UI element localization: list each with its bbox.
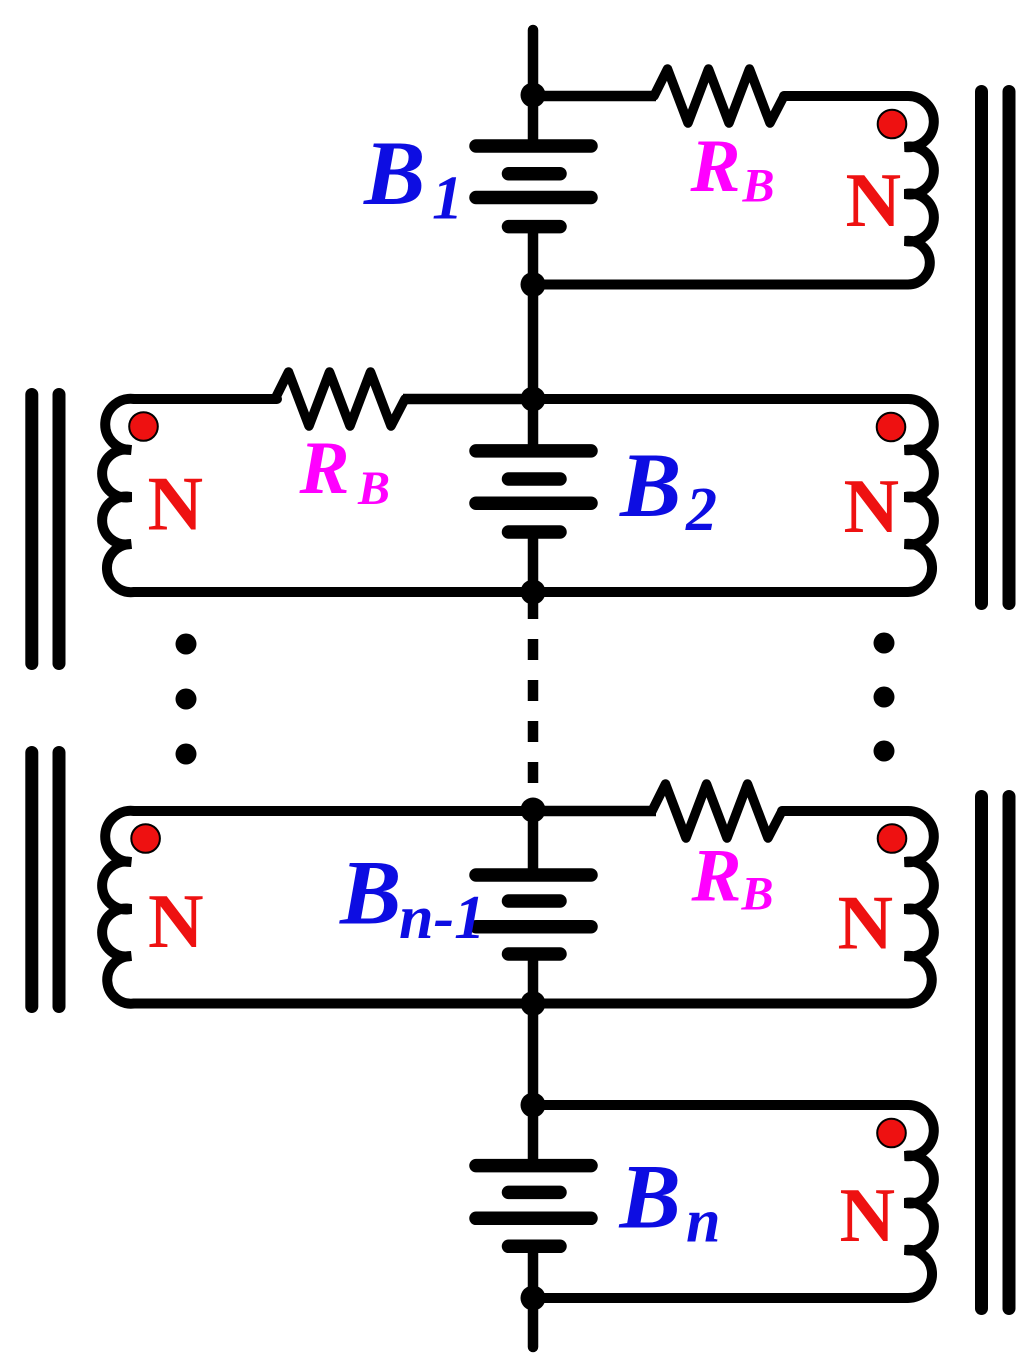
wire node C to resistor (left)	[403, 394, 533, 405]
resistor RB (row2 left)	[275, 372, 405, 426]
wire node B to node C	[528, 285, 539, 400]
battery B2	[476, 451, 591, 532]
core right upper (line 2)	[1003, 92, 1016, 604]
label RB (row1)	[690, 125, 775, 213]
label B1	[363, 122, 463, 233]
wire B2 + to battery	[528, 399, 539, 451]
winding N (row2 left) with wires	[102, 399, 533, 592]
wire node A to resistor	[533, 91, 656, 102]
svg-text:R: R	[690, 125, 741, 208]
node H (Bn -)	[521, 1286, 546, 1311]
wire Bn + to battery	[528, 1105, 539, 1166]
svg-text:N: N	[838, 880, 894, 966]
resistor RB (row3)	[652, 784, 782, 838]
wire top feed	[528, 30, 539, 96]
node D (B2 -)	[521, 580, 546, 605]
polarity dot (row1 right)	[878, 110, 907, 139]
battery B1	[476, 146, 591, 227]
polarity dot (row3 left)	[131, 824, 160, 853]
battery Bn	[476, 1166, 591, 1247]
winding N (row4 right) with wires	[533, 1105, 934, 1298]
core left upper (line 1)	[25, 395, 38, 664]
polarity dot (row4 right)	[877, 1119, 906, 1148]
label B2	[619, 434, 717, 544]
winding N (row3 left) with wires	[102, 811, 533, 1004]
svg-text:N: N	[840, 1172, 896, 1258]
svg-text:B: B	[357, 462, 390, 515]
node B (B1-/B2+)	[521, 272, 546, 297]
wire bottom feed	[528, 1298, 539, 1347]
core left lower (line 2)	[53, 753, 66, 1007]
wire Bn-1 + to battery	[528, 810, 539, 875]
svg-text:B: B	[619, 1146, 681, 1248]
svg-text:R: R	[299, 427, 350, 510]
core right upper (line 1)	[975, 92, 988, 604]
svg-text:N: N	[846, 157, 902, 243]
label Bn	[619, 1146, 721, 1256]
svg-text:1: 1	[432, 165, 463, 233]
node F (Bn-1 -)	[521, 991, 546, 1016]
svg-text:R: R	[691, 835, 742, 918]
winding N (row1 right) with wires	[533, 96, 934, 285]
ellipsis dots left	[176, 634, 197, 765]
svg-text:B: B	[363, 122, 425, 224]
wire node F to node G	[528, 1004, 539, 1106]
wire battery to Bn -	[528, 1246, 539, 1298]
svg-text:B: B	[742, 160, 775, 213]
polarity dot (row3 right)	[878, 824, 907, 853]
core right lower (line 2)	[1003, 797, 1016, 1309]
svg-text:N: N	[844, 463, 900, 549]
svg-text:n-1: n-1	[399, 884, 485, 952]
polarity dot (row2 right)	[877, 413, 906, 442]
svg-text:N: N	[148, 878, 204, 964]
resistor RB (row1)	[654, 69, 784, 123]
battery Bn-1	[476, 875, 591, 954]
core left upper (line 2)	[53, 395, 66, 664]
wire battery to B2 -	[528, 532, 539, 592]
svg-text:2: 2	[685, 476, 717, 544]
wire battery to Bn-1 -	[528, 954, 539, 1004]
node C (B2 +)	[521, 387, 546, 412]
wire battery to B1 -	[528, 227, 539, 285]
svg-text:B: B	[339, 842, 401, 944]
node E (Bn-1 +)	[521, 798, 546, 823]
core left lower (line 1)	[25, 753, 38, 1007]
wire B1 + to battery	[528, 95, 539, 146]
label Bn-1	[339, 842, 485, 953]
node G (Bn +)	[521, 1093, 546, 1118]
winding N (row3 right) with wires	[533, 811, 934, 1004]
core right lower (line 1)	[975, 797, 988, 1309]
wire dashed continuation	[528, 598, 539, 788]
label RB (row2)	[299, 427, 391, 515]
svg-text:n: n	[686, 1188, 720, 1256]
label RB (row3)	[691, 835, 774, 921]
wire node E to resistor (right)	[533, 806, 656, 817]
svg-text:N: N	[148, 461, 204, 547]
node A (B1 +)	[521, 83, 546, 108]
svg-text:B: B	[741, 868, 774, 921]
winding N (row2 right) with wires	[533, 399, 934, 592]
svg-text:B: B	[619, 434, 681, 536]
ellipsis dots right	[874, 633, 895, 762]
polarity dot (row2 left)	[129, 412, 158, 441]
